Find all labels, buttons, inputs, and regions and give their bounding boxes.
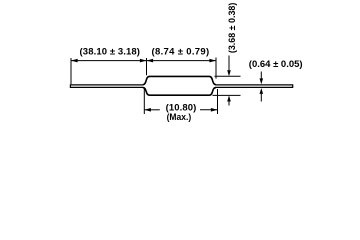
max body length extension line left — [143, 89, 145, 114]
svg-text:(3.68 ± 0.38): (3.68 ± 0.38) — [227, 3, 238, 54]
svg-text:(0.64 ± 0.05): (0.64 ± 0.05) — [249, 59, 303, 70]
dimension line (38.10 ± 3.18) — [71, 59, 147, 63]
resistor body outline — [143, 76, 216, 95]
extension line right (body length dim) — [215, 58, 217, 79]
max body length extension line right — [217, 89, 219, 114]
lead diameter dimension arrows (0.64 ± 0.05) — [260, 72, 264, 102]
dimension line (8.74 ± 0.79) — [147, 59, 217, 63]
svg-text:(38.10 ± 3.18): (38.10 ± 3.18) — [80, 46, 140, 57]
body bottom extension line (diameter dim) — [213, 94, 241, 96]
left lead wire — [70, 85, 143, 88]
diameter dimension arrows (3.68 ± 0.38) — [227, 56, 231, 106]
body top extension line (diameter dim) — [215, 75, 241, 77]
svg-text:(Max.): (Max.) — [167, 111, 192, 122]
extension line middle (shared) — [146, 58, 148, 75]
dimension line (10.80 Max.) — [144, 108, 217, 112]
right lead wire — [216, 85, 293, 88]
svg-text:(8.74 ± 0.79): (8.74 ± 0.79) — [152, 46, 210, 57]
extension line left (lead length dim) — [70, 58, 72, 84]
